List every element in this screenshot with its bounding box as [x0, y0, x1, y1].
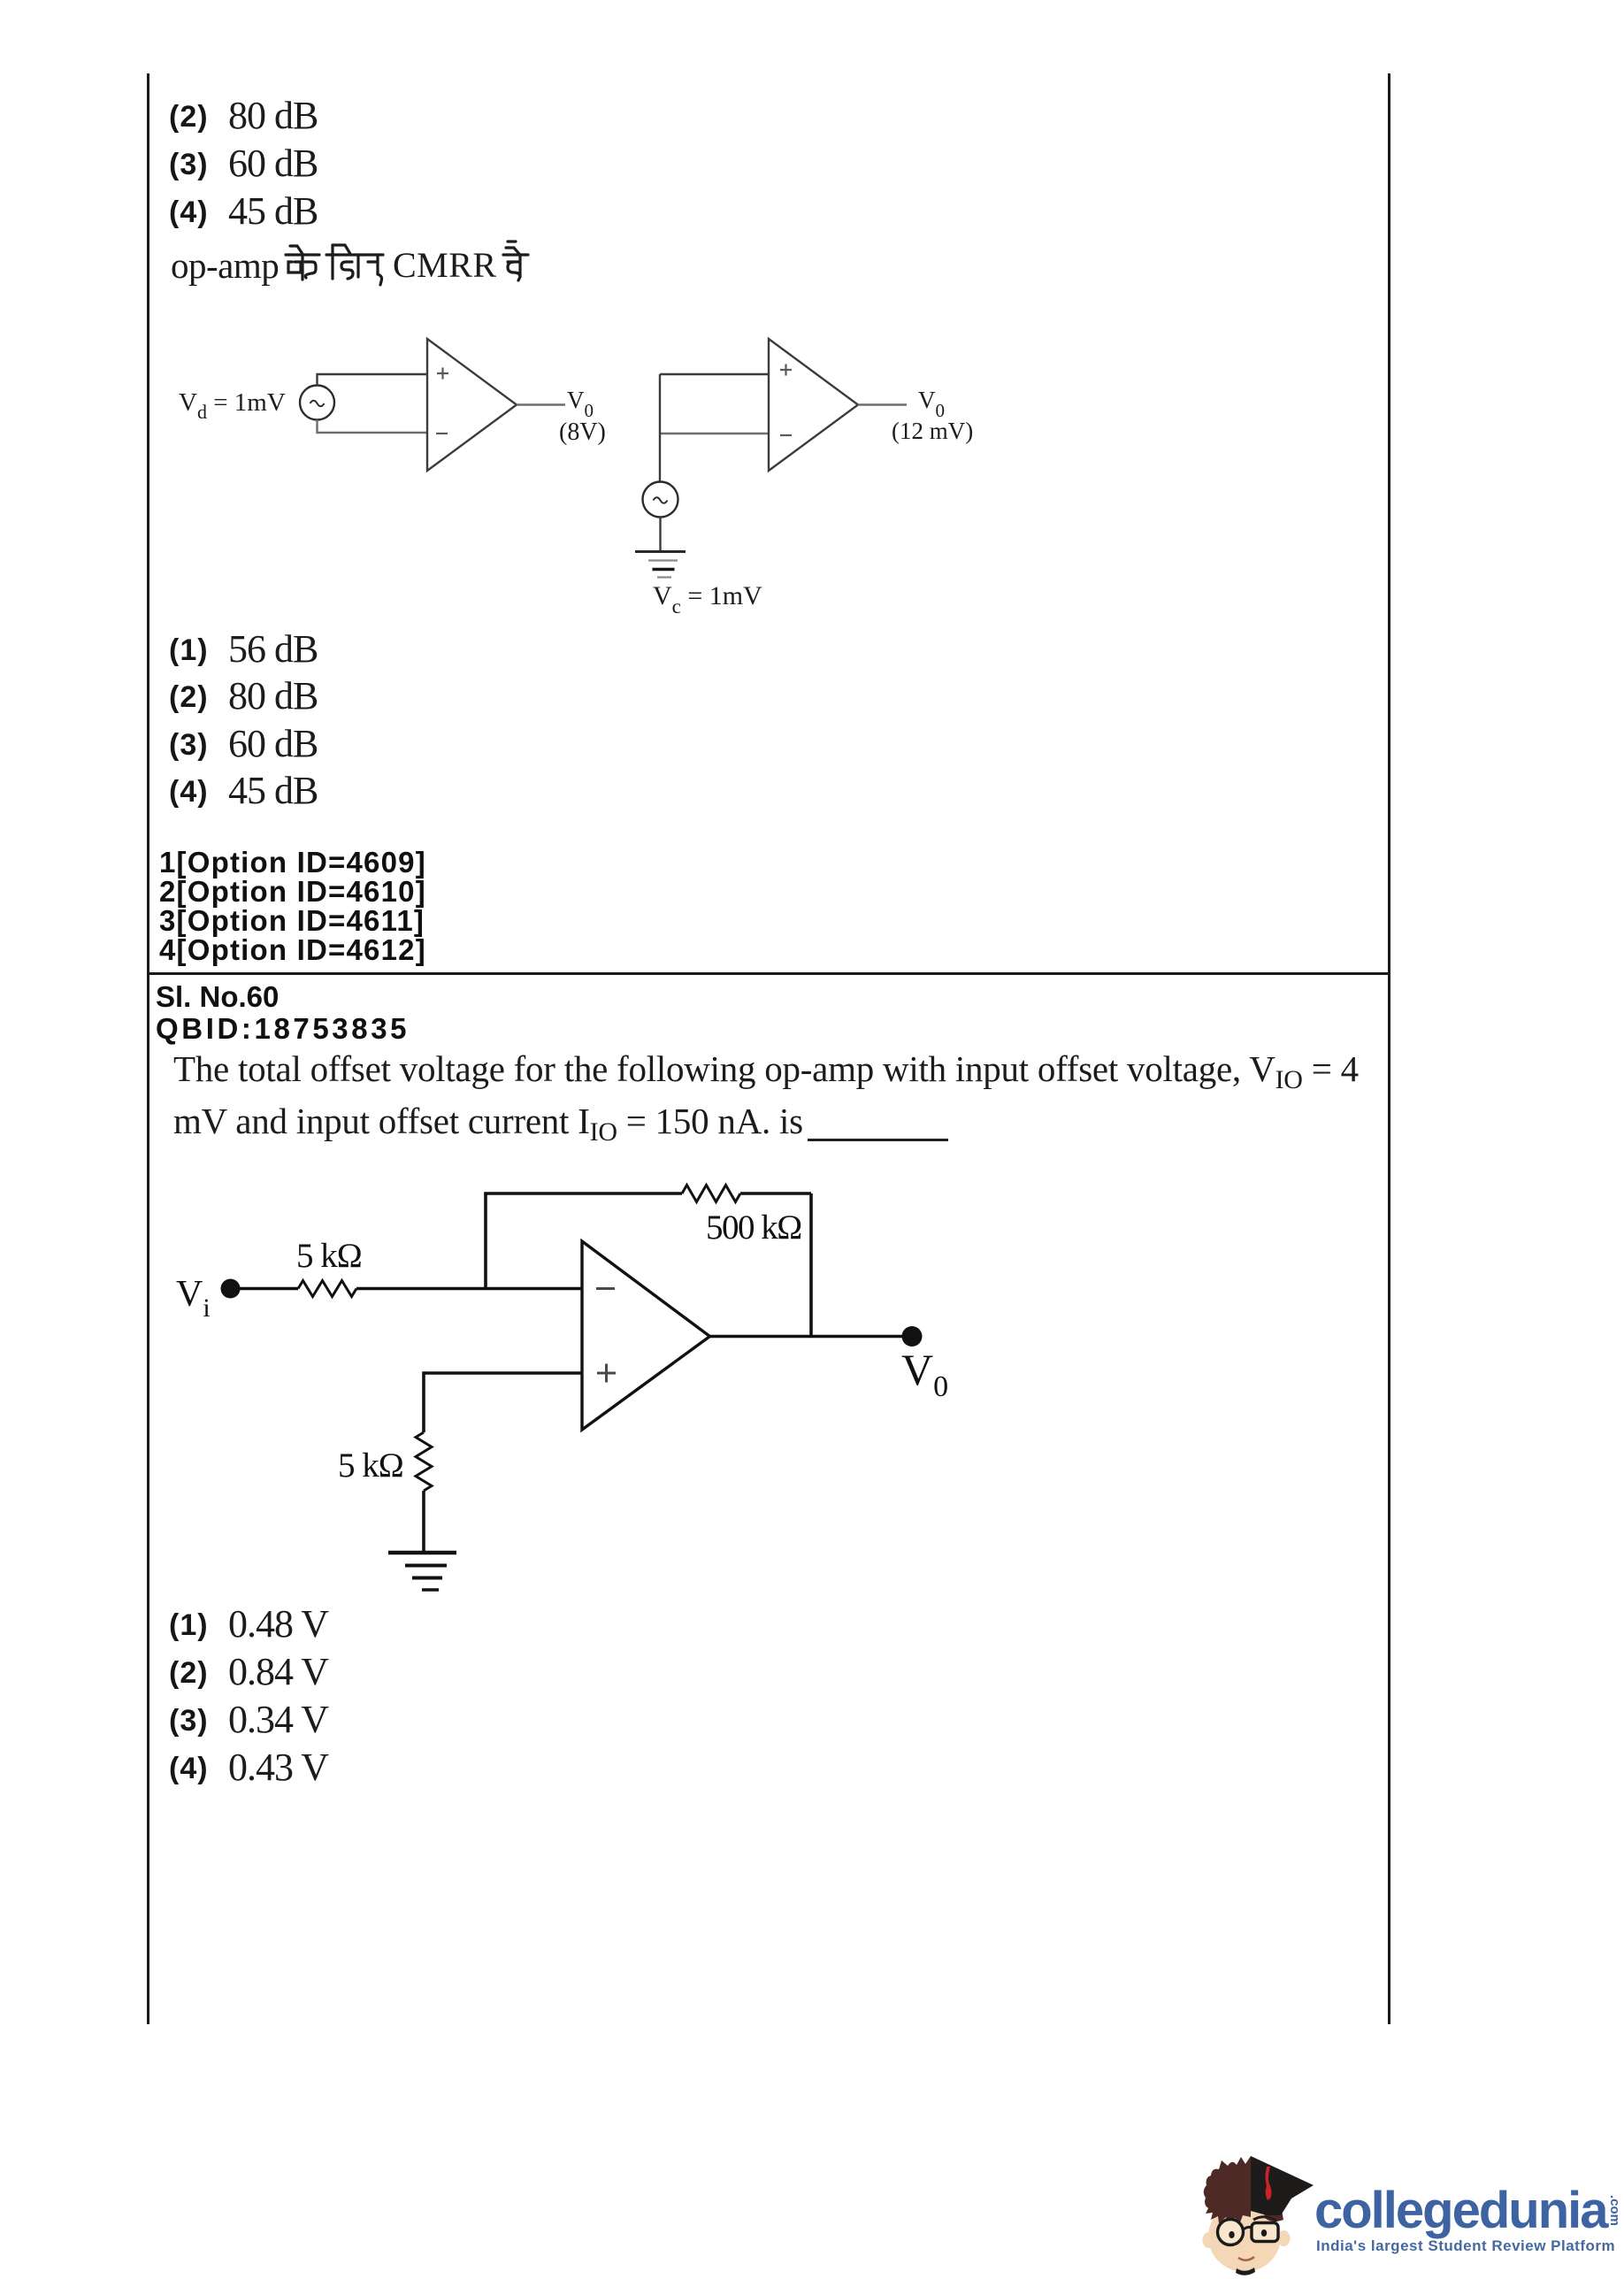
label R2 500 kOhm	[706, 1209, 801, 1247]
mascot collar	[1236, 2267, 1255, 2275]
feedback top wire right	[740, 1192, 811, 1195]
hindi word ke (Devanagari)	[286, 246, 319, 280]
svg-text:V0: V0	[901, 1345, 948, 1403]
resistor R3 5k (to ground)	[416, 1432, 432, 1491]
output node dot	[902, 1326, 923, 1347]
options under circuits	[169, 633, 209, 668]
mascot cap	[1251, 2156, 1314, 2215]
row separator line	[147, 972, 1390, 975]
ground GND2	[635, 552, 686, 578]
bottom options	[169, 1608, 209, 1643]
mascot eyebrow	[1253, 2217, 1276, 2221]
output wire U1	[517, 403, 565, 405]
minus pin mark U3	[596, 1287, 615, 1290]
feedback top wire left	[484, 1192, 682, 1195]
hindi word hai (Devanagari)	[503, 242, 528, 280]
wire - input C2	[660, 433, 769, 434]
input node dot	[221, 1279, 241, 1299]
label R3 5 kOhm	[338, 1446, 403, 1485]
svg-text:5 kΩ: 5 kΩ	[296, 1237, 362, 1275]
label R1 5 kOhm	[296, 1237, 362, 1275]
label Vd = 1mV	[179, 388, 286, 423]
resistor R1 5k (series input)	[298, 1281, 356, 1297]
minus pin mark U1	[436, 433, 448, 434]
plus input wire	[424, 1371, 582, 1375]
question 60 header	[156, 980, 279, 1014]
blank underline	[808, 1139, 948, 1141]
top spillover options of previous question	[169, 100, 209, 134]
label V0 (8V)	[559, 387, 606, 446]
resistor R2 500k (feedback)	[682, 1186, 740, 1202]
hindi question line: op-amp ke liye CMRR hai	[171, 244, 279, 287]
question text	[173, 1047, 1359, 1090]
wire top VS1 to + input	[318, 374, 428, 386]
table cell left border	[147, 73, 149, 2024]
ac source VS1	[300, 386, 334, 420]
logo .com vertical	[1607, 2195, 1622, 2226]
mascot mouth	[1238, 2257, 1254, 2260]
wire R3 to ground	[422, 1491, 425, 1551]
svg-text:Vi: Vi	[176, 1274, 211, 1323]
label V0 output	[901, 1345, 948, 1403]
plus pin mark U3	[597, 1364, 616, 1383]
input wire right	[356, 1287, 582, 1291]
ac source VS2	[643, 482, 678, 518]
label Vc = 1mV	[653, 581, 762, 618]
wire bottom VS1 to - input	[318, 420, 428, 434]
cap tassel	[1266, 2167, 1272, 2200]
op-amp U3	[582, 1241, 710, 1430]
wire VS2 to ground	[659, 518, 661, 551]
svg-text:Vd = 1mV: Vd = 1mV	[179, 388, 286, 423]
minus pin mark U2	[780, 434, 792, 436]
svg-text:V0: V0	[567, 387, 594, 421]
collegedunia logo wordmark	[1314, 2181, 1607, 2240]
plus pin mark U1	[437, 368, 448, 380]
option id lines	[159, 846, 426, 879]
label Vi	[176, 1274, 211, 1323]
mascot hair	[1204, 2156, 1251, 2225]
wire left vertical C2	[659, 374, 661, 482]
feedback right vertical wire	[809, 1193, 813, 1337]
svg-text:V0: V0	[918, 387, 945, 421]
glasses	[1218, 2220, 1279, 2245]
svg-text:(8V): (8V)	[559, 418, 606, 446]
svg-text:5 kΩ: 5 kΩ	[338, 1446, 403, 1485]
op-amp U2	[769, 339, 858, 471]
ground GND3	[388, 1553, 456, 1590]
feedback left vertical wire	[484, 1193, 487, 1289]
op-amp U1	[427, 339, 517, 471]
logo tagline	[1316, 2237, 1615, 2255]
table cell right border	[1388, 73, 1390, 2024]
plus pin mark U2	[780, 364, 792, 376]
input wire left	[240, 1287, 298, 1291]
svg-text:500 kΩ: 500 kΩ	[706, 1209, 801, 1247]
mascot hair sideburn under cap	[1264, 2210, 1283, 2221]
svg-text:Vc = 1mV: Vc = 1mV	[653, 581, 762, 618]
svg-text:(12 mV): (12 mV)	[892, 418, 973, 444]
mascot face	[1203, 2201, 1291, 2272]
hindi word liye (Devanagari)	[326, 245, 383, 285]
wire + input C2	[660, 373, 769, 375]
wire down to R3	[422, 1371, 425, 1432]
label V0 (12 mV)	[892, 387, 973, 444]
logo mascot	[1199, 2141, 1318, 2279]
mascot eyes	[1229, 2229, 1267, 2238]
output wire U2	[858, 403, 907, 405]
output wire U3	[710, 1335, 913, 1339]
